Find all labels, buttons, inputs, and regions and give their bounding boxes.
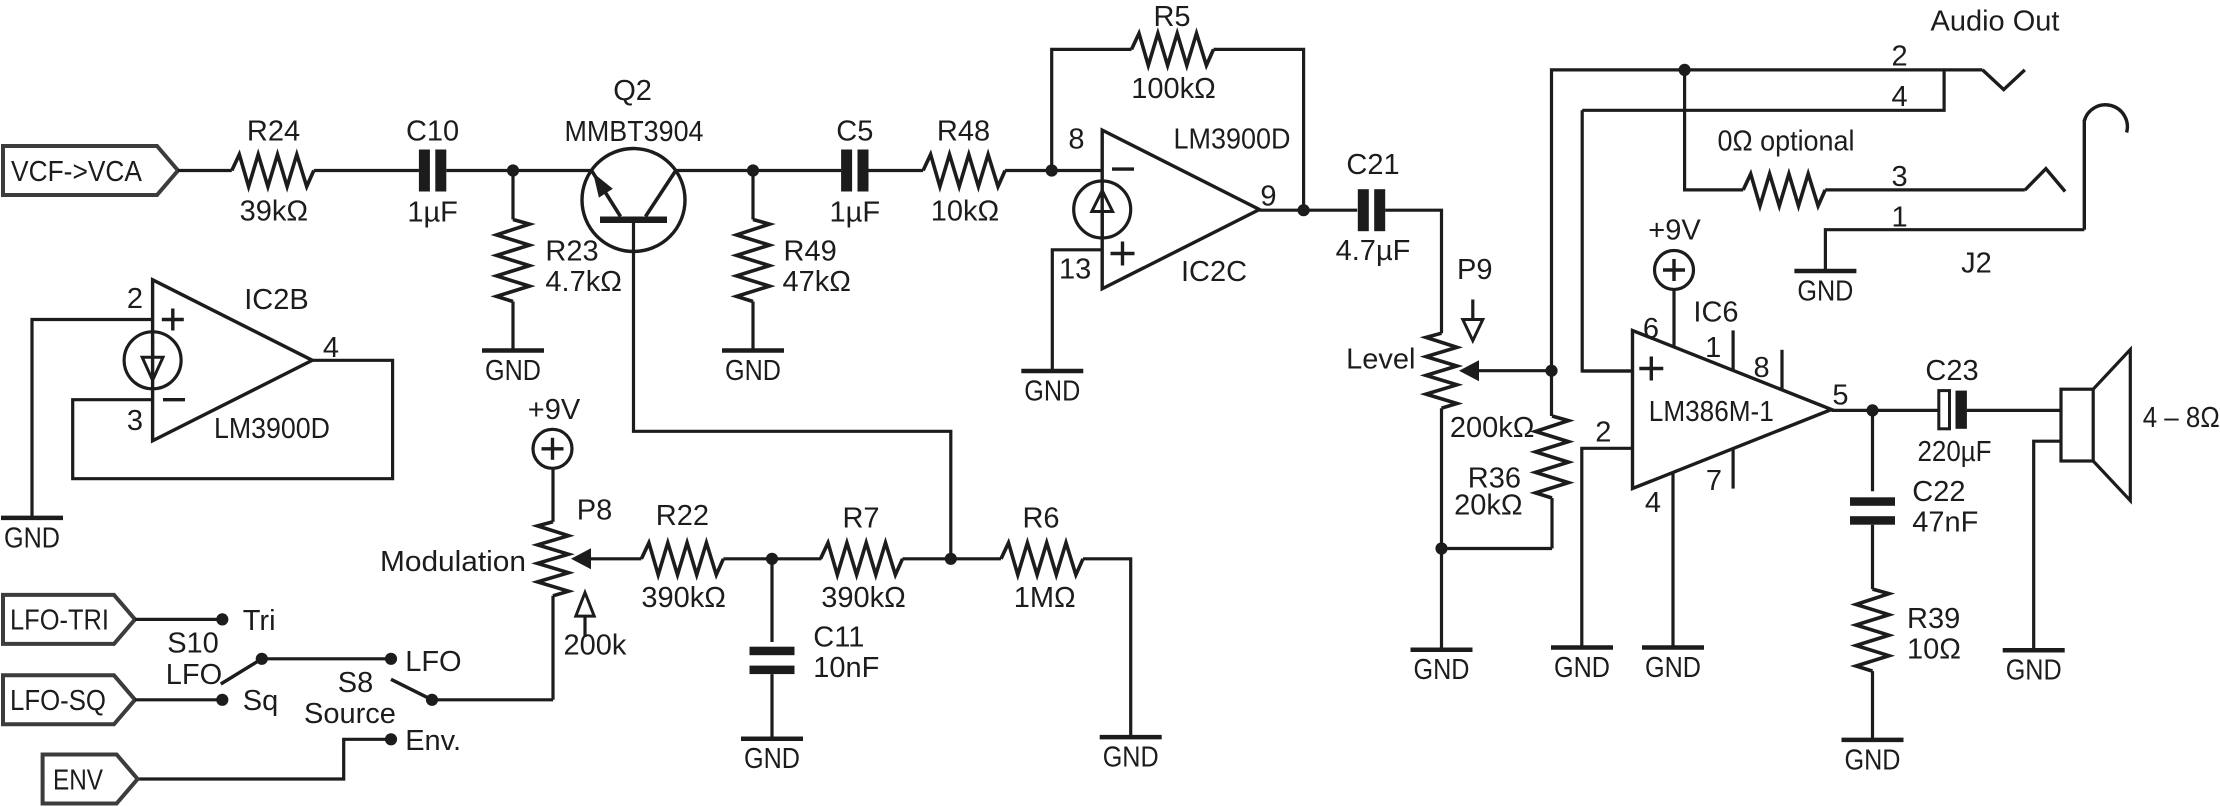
wire (751, 302, 754, 351)
svg-text:2: 2 (1891, 41, 1907, 73)
wire (1550, 498, 1553, 549)
svg-text:+9V: +9V (528, 394, 581, 426)
resistor R36 (1454, 416, 1568, 521)
wire (1552, 70, 1983, 371)
svg-text:1: 1 (1891, 202, 1907, 234)
svg-text:Q2: Q2 (613, 75, 652, 107)
wire (1825, 188, 2025, 191)
svg-text:LFO: LFO (405, 646, 461, 678)
svg-text:GND: GND (4, 522, 60, 554)
ground (1411, 650, 1473, 687)
svg-text:GND: GND (485, 355, 541, 387)
wire (1871, 410, 1874, 491)
svg-text:9: 9 (1260, 181, 1276, 213)
pin 4 label (1645, 487, 1661, 519)
switch S10 (166, 605, 278, 717)
pin 9 label (1260, 181, 1276, 213)
wire (1052, 49, 1132, 170)
ground (2003, 650, 2065, 687)
wire (2034, 441, 2061, 648)
node junction C10/R23 (507, 164, 519, 176)
svg-text:8: 8 (1754, 352, 1770, 384)
svg-text:1: 1 (1705, 332, 1721, 364)
svg-text:C21: C21 (1346, 149, 1399, 181)
wire (1967, 409, 2061, 412)
ground (1, 518, 63, 555)
wire env (136, 739, 391, 779)
svg-text:39kΩ: 39kΩ (240, 195, 308, 227)
ground (1842, 740, 1904, 777)
wire (1005, 169, 1102, 172)
svg-text:IC2C: IC2C (1181, 256, 1247, 288)
pin label 1 (1891, 202, 1907, 234)
svg-text:GND: GND (1845, 744, 1901, 776)
svg-text:Modulation: Modulation (380, 546, 526, 578)
wire (511, 171, 514, 220)
ground (1021, 371, 1083, 408)
svg-text:220µF: 220µF (1918, 436, 1992, 468)
wire (1385, 210, 1441, 333)
wire (1214, 49, 1304, 210)
svg-text:R49: R49 (784, 235, 837, 267)
ground (722, 351, 784, 388)
svg-text:R23: R23 (545, 235, 598, 267)
wire (770, 674, 773, 739)
svg-text:200kΩ: 200kΩ (1450, 412, 1535, 444)
node junction IC6 out (1866, 404, 1878, 416)
wire (551, 596, 554, 700)
wire (869, 169, 924, 172)
power supply +9V (IC6) (1648, 214, 1701, 289)
wire pin3 feed (1582, 110, 1632, 371)
op-amp IC2B (124, 280, 330, 445)
wire line 4 (1582, 70, 1944, 110)
svg-text:GND: GND (1797, 276, 1853, 308)
svg-text:200k: 200k (564, 629, 627, 661)
svg-text:4.7kΩ: 4.7kΩ (545, 266, 622, 298)
svg-text:C22: C22 (1912, 476, 1965, 508)
pin label 2 (1891, 41, 1907, 73)
svg-text:J2: J2 (1961, 248, 1992, 280)
capacitor C5 (830, 115, 881, 228)
potentiometer P8 (380, 495, 641, 662)
transistor Q2 (565, 75, 704, 252)
wire (1083, 559, 1131, 735)
node junction P9 wiper (1545, 365, 1557, 377)
wire (314, 169, 419, 172)
wire pin4 (1671, 472, 1674, 646)
svg-text:S8: S8 (338, 667, 373, 699)
ground (1551, 648, 1613, 685)
svg-text:6: 6 (1643, 313, 1659, 345)
svg-text:GND: GND (744, 743, 800, 775)
pin 2 label (1595, 417, 1611, 449)
jack J2 tip contact 2 (1983, 70, 2025, 90)
svg-text:10Ω: 10Ω (1907, 634, 1961, 666)
svg-text:R24: R24 (247, 115, 300, 147)
pin 1 stub (1705, 330, 1733, 370)
wire pin2 to gnd (32, 320, 153, 517)
node junction P9/R36 bottom (1435, 542, 1447, 554)
label Audio Out (1931, 6, 2060, 38)
wire (1871, 525, 1874, 589)
svg-text:10nF: 10nF (813, 652, 879, 684)
svg-text:2: 2 (127, 283, 143, 315)
resistor R7 (821, 503, 906, 615)
net flag LFO-TRI (3, 595, 135, 644)
wire feedback loop (73, 360, 393, 478)
ground (741, 739, 803, 776)
switch S8 (304, 646, 462, 757)
capacitor C23 (1918, 355, 1992, 468)
svg-text:4.7µF: 4.7µF (1336, 235, 1411, 267)
resistor 0-ohm optional (1718, 126, 1855, 206)
svg-text:100kΩ: 100kΩ (1131, 73, 1216, 105)
node junction IC2C out (1298, 204, 1310, 216)
wire (903, 557, 1002, 560)
svg-text:ENV: ENV (53, 764, 104, 796)
resistor R39 (1856, 589, 1961, 671)
wire (1440, 549, 1443, 649)
svg-text:47nF: 47nF (1912, 507, 1978, 539)
resistor R24 (232, 115, 314, 227)
svg-text:LFO: LFO (166, 659, 222, 691)
svg-text:4: 4 (1891, 81, 1907, 113)
svg-text:20kΩ: 20kΩ (1454, 489, 1522, 521)
node junction R48/R5/pin8 (1046, 164, 1058, 176)
capacitor C11 (750, 622, 880, 685)
wire (446, 169, 591, 172)
svg-text:C23: C23 (1925, 355, 1978, 387)
svg-text:R7: R7 (842, 503, 879, 535)
wire (1832, 409, 1939, 412)
svg-text:P8: P8 (577, 495, 612, 527)
wire pin2 (1582, 448, 1633, 646)
wire line 1 (1825, 230, 2084, 270)
wire (178, 169, 232, 172)
svg-text:GND: GND (1645, 652, 1701, 684)
svg-text:390kΩ: 390kΩ (821, 582, 906, 614)
wire (432, 698, 553, 701)
svg-text:C10: C10 (406, 115, 459, 147)
svg-text:IC6: IC6 (1693, 297, 1738, 329)
svg-text:GND: GND (1554, 652, 1610, 684)
svg-text:R6: R6 (1022, 503, 1059, 535)
resistor R23 (497, 220, 622, 302)
svg-text:1µF: 1µF (407, 197, 458, 229)
op-amp IC2C (1074, 123, 1291, 288)
capacitor C21 (1336, 149, 1411, 267)
net flag VCF->VCA (3, 146, 178, 195)
wire (135, 698, 222, 701)
pin 4 label (323, 332, 339, 364)
svg-text:GND: GND (1024, 376, 1080, 408)
svg-text:R39: R39 (1907, 603, 1960, 635)
jack J2 ring contact 3 (2025, 169, 2065, 192)
svg-text:13: 13 (1059, 254, 1091, 286)
svg-text:GND: GND (1414, 654, 1470, 686)
pin 8 label (1068, 124, 1084, 156)
svg-text:5: 5 (1832, 380, 1848, 412)
svg-text:Audio Out: Audio Out (1931, 6, 2060, 38)
pin 8 stub (1754, 350, 1782, 390)
svg-text:Env.: Env. (405, 725, 461, 757)
svg-text:GND: GND (725, 355, 781, 387)
wire 0-ohm branch (1685, 70, 1744, 190)
speaker (2061, 350, 2220, 501)
svg-text:P9: P9 (1457, 254, 1492, 286)
svg-text:VCF->VCA: VCF->VCA (11, 156, 143, 188)
resistor R5 (1131, 1, 1216, 105)
svg-text:4: 4 (1645, 487, 1661, 519)
node junction R7/R6/base (945, 553, 957, 565)
wire (770, 559, 773, 642)
wire (262, 657, 391, 660)
svg-text:1MΩ: 1MΩ (1014, 582, 1076, 614)
svg-text:C11: C11 (813, 622, 864, 654)
svg-text:10kΩ: 10kΩ (931, 196, 999, 228)
wire (1259, 209, 1357, 212)
wire (723, 557, 821, 560)
resistor R48 (923, 115, 1005, 227)
svg-text:8: 8 (1068, 124, 1084, 156)
svg-text:+9V: +9V (1648, 214, 1701, 246)
svg-text:Sq: Sq (243, 685, 278, 717)
jack J2 sleeve (1961, 105, 2127, 280)
svg-text:GND: GND (1103, 742, 1159, 774)
wire pin6 (1672, 290, 1675, 348)
ground (1794, 271, 1856, 308)
wire (511, 302, 514, 351)
svg-text:3: 3 (127, 405, 143, 437)
power supply +9V (P8) (528, 394, 581, 468)
wire pin13 (1052, 250, 1102, 369)
svg-text:IC2B: IC2B (244, 284, 308, 316)
resistor R22 (641, 500, 726, 614)
svg-text:3: 3 (1891, 161, 1907, 193)
svg-text:R48: R48 (937, 115, 990, 147)
svg-text:S10: S10 (167, 627, 219, 659)
wire (551, 468, 554, 522)
svg-text:Source: Source (304, 698, 396, 730)
svg-text:MMBT3904: MMBT3904 (565, 116, 704, 148)
pin 5 label (1832, 380, 1848, 412)
ground (1100, 737, 1162, 774)
svg-text:LM386M-1: LM386M-1 (1649, 396, 1774, 428)
wire (135, 618, 222, 621)
net flag ENV (43, 755, 138, 804)
op-amp IC6 LM386 (1633, 297, 1832, 489)
pin 2 label (127, 283, 143, 315)
wire (1442, 547, 1553, 550)
wire (1871, 671, 1874, 738)
svg-text:GND: GND (2006, 655, 2062, 687)
svg-text:R22: R22 (656, 500, 709, 532)
svg-text:LFO-TRI: LFO-TRI (10, 605, 109, 637)
svg-text:7: 7 (1706, 465, 1722, 497)
svg-text:47kΩ: 47kΩ (783, 266, 851, 298)
wire Q2 base (634, 223, 951, 559)
node junction Q2/R49/C5 (747, 164, 759, 176)
pin 13 label (1059, 254, 1091, 286)
ground (482, 351, 544, 388)
svg-text:Level: Level (1346, 344, 1415, 376)
svg-text:0Ω optional: 0Ω optional (1718, 126, 1855, 158)
svg-text:1µF: 1µF (830, 197, 881, 229)
wire (751, 171, 754, 220)
wire (675, 169, 841, 172)
pin label 4 (1891, 81, 1907, 113)
capacitor C22 (1850, 476, 1978, 539)
svg-text:390kΩ: 390kΩ (641, 582, 726, 614)
svg-text:2: 2 (1595, 417, 1611, 449)
resistor R6 (1001, 503, 1083, 615)
svg-text:C5: C5 (836, 115, 873, 147)
capacitor C10 (406, 115, 459, 228)
pin 6 label (1643, 313, 1659, 345)
pin 7 stub (1706, 449, 1733, 497)
net flag LFO-SQ (3, 675, 135, 724)
node junction R22/R7/C11 (766, 553, 778, 565)
svg-text:R5: R5 (1153, 1, 1190, 33)
node junction line2/0ohm (1679, 64, 1691, 76)
potentiometer P9 (1346, 254, 1551, 444)
ground (1642, 648, 1704, 685)
svg-text:LM3900D: LM3900D (214, 413, 330, 445)
wire pin3 (1582, 369, 1632, 372)
svg-text:LFO-SQ: LFO-SQ (10, 685, 106, 717)
pin label 3 (1891, 161, 1907, 193)
resistor R49 (737, 220, 851, 302)
pin 3 label (127, 405, 143, 437)
svg-text:4 – 8Ω: 4 – 8Ω (2143, 402, 2220, 434)
wire (1550, 371, 1553, 416)
wire (1440, 408, 1443, 548)
svg-text:LM3900D: LM3900D (1174, 123, 1291, 155)
svg-text:Tri: Tri (243, 605, 276, 637)
